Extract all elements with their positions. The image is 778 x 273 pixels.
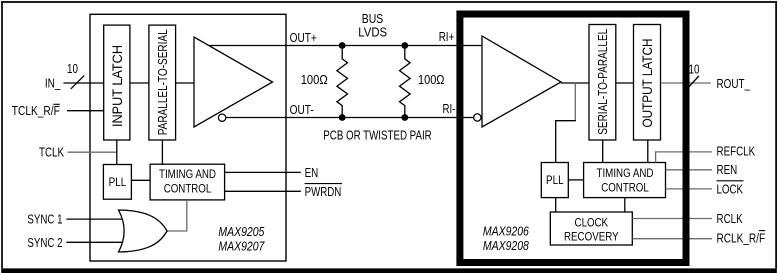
junction dot RI+ at R2 (401, 42, 408, 49)
svg-text:OUTPUT LATCH: OUTPUT LATCH (639, 39, 655, 128)
bus-width slash on ROUT_ (686, 76, 699, 90)
svg-text:REN: REN (717, 163, 738, 177)
svg-text:MAX9206: MAX9206 (483, 224, 529, 238)
wire REN line (gray) (666, 169, 713, 171)
part number MAX9205 / MAX9207 (218, 225, 265, 254)
svg-text:PWRDN: PWRDN (305, 185, 342, 199)
svg-text:LOCK: LOCK (717, 183, 744, 197)
svg-text:TIMING AND: TIMING AND (597, 166, 654, 180)
serializer block outline MAX9205/MAX9207 (90, 14, 286, 261)
wire OR gate output to timing/control (gray) (167, 200, 187, 231)
wire LOCK line (gray) (666, 188, 713, 190)
node LOCK label (active low) (717, 181, 744, 197)
wire SYNC 1 line (66, 218, 123, 220)
svg-text:IN_: IN_ (45, 77, 61, 91)
svg-text:LVDS: LVDS (358, 26, 387, 40)
wire serial-to-parallel to output latch (616, 82, 634, 84)
svg-text:CONTROL: CONTROL (164, 182, 212, 196)
LVDS receiver (deserializer amplifier) (482, 36, 561, 127)
bus-width slash on IN_ (71, 75, 85, 89)
svg-text:REFCLK: REFCLK (717, 145, 756, 159)
svg-text:CONTROL: CONTROL (601, 181, 649, 195)
svg-text:PCB OR TWISTED PAIR: PCB OR TWISTED PAIR (323, 128, 431, 142)
svg-text:INPUT LATCH: INPUT LATCH (109, 45, 125, 127)
svg-text:SERIAL-TO-PARALLEL: SERIAL-TO-PARALLEL (595, 29, 610, 135)
svg-text:SYNC 1: SYNC 1 (27, 213, 62, 227)
node RCLK_R/F label (717, 231, 766, 246)
wire receiver output to serial-to-parallel (561, 82, 589, 84)
wire SYNC 2 line (66, 241, 123, 243)
svg-text:TCLK_R/F: TCLK_R/F (12, 104, 60, 118)
OR gate (SYNC combiner) (119, 210, 168, 252)
deserializer block frame MAX9206/MAX9208 (460, 14, 686, 263)
PLL box (deserializer) (541, 163, 568, 198)
inversion bubble on OUT- (218, 114, 225, 121)
output latch box (634, 25, 661, 141)
svg-text:SYNC 2: SYNC 2 (27, 236, 62, 250)
svg-text:OUT-: OUT- (290, 103, 314, 117)
svg-text:10: 10 (689, 62, 700, 76)
svg-text:CLOCK: CLOCK (575, 215, 609, 229)
wire timing/control to clock recovery (624, 198, 626, 212)
wire PLL to clock recovery (555, 198, 557, 212)
wire serial-to-parallel to timing/control (602, 140, 604, 163)
wire parallel-to-serial to driver (176, 82, 194, 84)
svg-text:ROUT_: ROUT_ (717, 77, 751, 91)
wire TCLK_R/F line (67, 110, 104, 112)
resistor 100-ohm R2 zigzag (400, 46, 411, 118)
svg-text:MAX9205: MAX9205 (218, 225, 264, 239)
svg-text:RCLK: RCLK (717, 212, 744, 226)
wire TCLK line (gray) (68, 151, 117, 153)
input latch box (104, 25, 130, 140)
wire OUT- / RI- bus line (226, 117, 473, 119)
svg-text:TIMING AND: TIMING AND (159, 167, 216, 181)
svg-text:RI+: RI+ (439, 30, 455, 44)
wire PLL to timing/control (serializer) (131, 179, 150, 181)
wire EN line (225, 171, 301, 173)
node TCLK_R/F label (12, 104, 60, 118)
svg-text:10: 10 (67, 62, 78, 76)
svg-text:TCLK: TCLK (39, 146, 65, 160)
net name BUS LVDS (358, 12, 387, 40)
wire parallel-to-serial to timing/control (161, 140, 163, 164)
svg-text:OUT+: OUT+ (290, 31, 317, 45)
svg-text:RCLK_R/F: RCLK_R/F (717, 231, 766, 245)
wire recovered-clock drop (gray) (574, 83, 576, 121)
wire IN_ input line (64, 82, 104, 84)
svg-text:PLL: PLL (546, 173, 564, 187)
svg-text:RECOVERY: RECOVERY (564, 230, 619, 244)
wire REFCLK line (gray) (656, 152, 712, 163)
junction dot RI- at R2 (401, 114, 408, 121)
serial-to-parallel box (589, 25, 616, 141)
wire input latch to parallel-to-serial (130, 82, 149, 84)
svg-text:EN: EN (305, 166, 319, 180)
node PWRDN label (active low) (305, 184, 342, 199)
inversion bubble on RI- (474, 114, 481, 121)
parallel-to-serial box (149, 25, 176, 140)
LVDS output driver (serializer amplifier) (194, 37, 273, 127)
svg-text:100Ω: 100Ω (418, 72, 445, 87)
wire ROUT_ line (gray) (661, 82, 711, 84)
svg-text:MAX9207: MAX9207 (218, 239, 265, 253)
timing and control box (serializer) (150, 164, 225, 200)
wire OUT+ / RI+ bus line (208, 45, 482, 47)
clock recovery box (550, 212, 632, 245)
svg-text:100Ω: 100Ω (301, 72, 328, 87)
wire input latch to PLL (116, 140, 118, 165)
timing and control box (deserializer) (584, 163, 666, 198)
svg-text:BUS: BUS (362, 12, 384, 26)
svg-text:RI-: RI- (443, 102, 456, 116)
wire PLL to timing/control (deserializer) (568, 179, 583, 181)
wire elbow to PLL (deserializer) (556, 121, 576, 163)
svg-text:MAX9208: MAX9208 (483, 239, 529, 253)
part number MAX9206 / MAX9208 (483, 224, 529, 253)
PLL box (serializer) (103, 165, 131, 200)
wire RCLK line (gray) (632, 218, 712, 220)
junction dot OUT- at R1 (339, 114, 346, 121)
wire PWRDN line (225, 190, 301, 192)
wire output latch to timing/control (647, 140, 649, 163)
svg-text:PARALLEL-TO-SERIAL: PARALLEL-TO-SERIAL (155, 29, 170, 135)
wire RCLK_R/F line (gray) (632, 238, 712, 240)
resistor 100-ohm R1 zigzag (337, 46, 348, 118)
svg-text:PLL: PLL (109, 175, 127, 189)
junction dot OUT+ at R1 (339, 42, 346, 49)
